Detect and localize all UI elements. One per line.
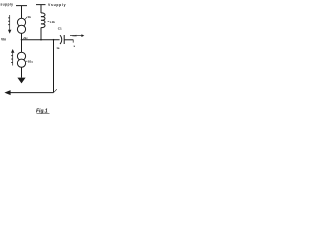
svg-text:C1: C1: [58, 27, 62, 31]
junction node dot coil: [40, 39, 42, 41]
svg-text:Vin: Vin: [1, 38, 6, 42]
svg-text:L1b: L1b: [50, 20, 55, 24]
svg-text:supply: supply: [0, 3, 13, 7]
svg-text:u: u: [74, 45, 76, 48]
corner tick: [54, 89, 57, 92]
wire after capacitor: [64, 39, 73, 41]
output arrow: [70, 35, 82, 37]
inductor L1b coil: [41, 13, 45, 28]
wire from coil to bus: [40, 28, 42, 40]
capacitor C1: [60, 35, 62, 44]
svg-text:1a: 1a: [56, 46, 59, 50]
junction node dot left: [21, 39, 23, 41]
return rail arrow (bottom): [10, 92, 53, 94]
svg-text:Vsupply: Vsupply: [48, 3, 66, 7]
current arrow annotation left top: [9, 15, 11, 30]
leader dash to L1b label: [48, 21, 50, 23]
down arrowhead to return rail: [17, 78, 25, 84]
branch wire down right: [53, 40, 55, 93]
current source I1b (two-circle symbol): [17, 18, 25, 26]
main bus wire: [22, 39, 60, 41]
svg-text:B1c: B1c: [28, 60, 34, 64]
current arrow annotation left bottom: [12, 53, 14, 66]
supply rail T-bar right: [36, 5, 46, 13]
junction node dot branch: [53, 39, 55, 41]
svg-text:1b: 1b: [28, 15, 32, 19]
leader line to I1b label: [25, 17, 28, 20]
current source B1c (two-circle symbol): [17, 52, 25, 60]
supply rail T-bar left: [16, 6, 27, 19]
leader dash to B1c label: [26, 60, 27, 62]
end tick: [72, 40, 74, 43]
wire from B1c down: [21, 67, 23, 77]
svg-text:out: out: [72, 33, 76, 37]
wire from I1b to summing node: [21, 33, 23, 52]
